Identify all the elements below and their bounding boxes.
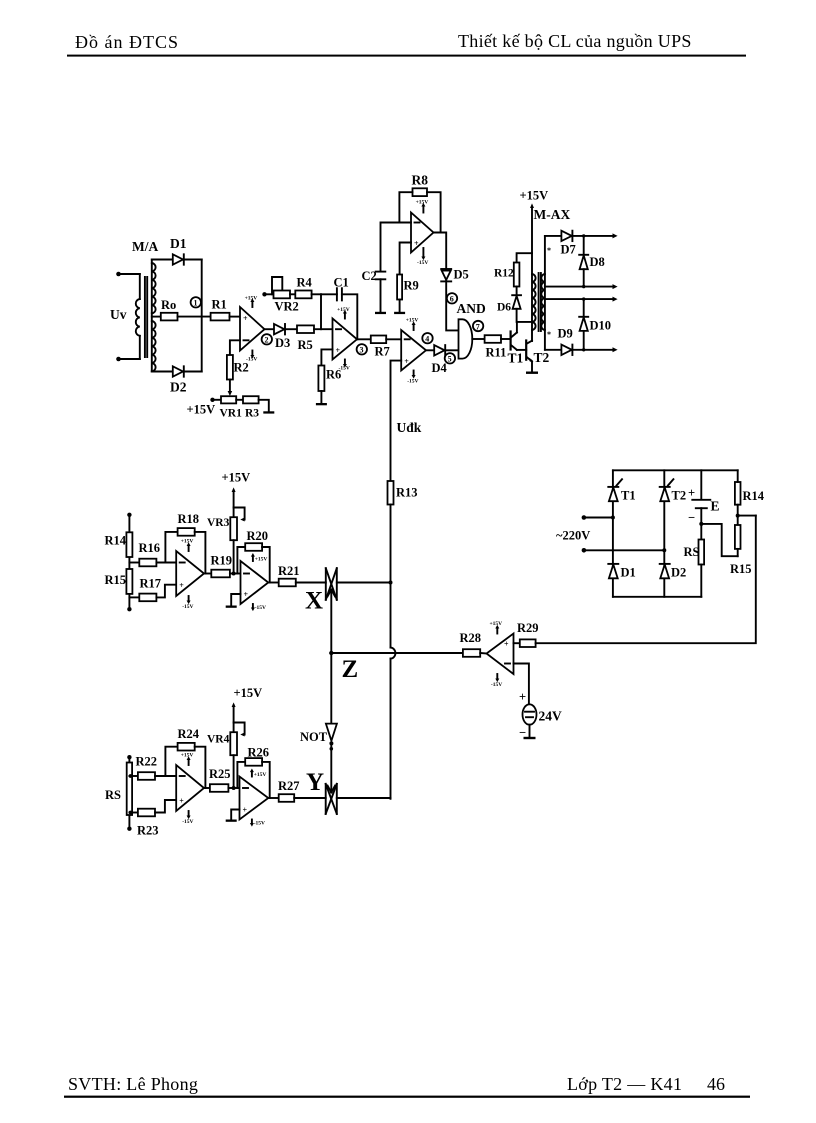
svg-text:NOT: NOT xyxy=(300,730,328,744)
wire feedback right xyxy=(427,192,441,232)
switch Y xyxy=(326,784,337,814)
svg-text:VR3: VR3 xyxy=(207,517,230,529)
svg-text:AND: AND xyxy=(457,301,486,316)
wire gate output 3 xyxy=(545,297,618,302)
resistor R23 xyxy=(138,809,155,817)
svg-text:R11: R11 xyxy=(486,346,507,360)
svg-text:Uv: Uv xyxy=(110,307,127,322)
potentiometer VR3 xyxy=(230,517,237,540)
svg-text:R13: R13 xyxy=(396,486,418,500)
op-amp 2 -supply xyxy=(339,360,350,372)
resistor R16 xyxy=(139,559,156,567)
wire xyxy=(228,787,239,789)
NOT gate xyxy=(326,724,337,746)
op-amp Y2 -supply xyxy=(250,820,265,827)
resistor R14 xyxy=(735,482,741,505)
diode D10 xyxy=(579,297,588,351)
op-amp 3 xyxy=(411,213,434,253)
svg-text:+15V: +15V xyxy=(337,307,350,313)
input terminal top xyxy=(116,272,121,277)
battery 24V xyxy=(523,704,537,724)
wire +15V rail / M-AX primary line xyxy=(530,203,534,341)
diode D2 xyxy=(660,564,670,578)
wire xyxy=(129,596,139,598)
resistor R29 xyxy=(520,639,536,647)
svg-text:T2: T2 xyxy=(534,350,550,365)
wire xyxy=(236,399,243,401)
wire mains 2 xyxy=(584,549,664,551)
node 7 xyxy=(473,321,483,332)
svg-text:R27: R27 xyxy=(278,779,300,793)
wire xyxy=(290,293,295,295)
wire X2 output xyxy=(268,582,278,584)
wire feedback left xyxy=(237,547,245,574)
svg-text:R28: R28 xyxy=(460,631,482,645)
wire inverting input xyxy=(230,340,240,355)
wire X control xyxy=(328,590,336,654)
wire feedback right xyxy=(262,762,270,798)
diode D4 xyxy=(434,345,445,355)
resistor R26 xyxy=(245,758,262,766)
node 2 xyxy=(262,334,272,345)
resistor R7 xyxy=(371,336,386,344)
svg-text:+15V: +15V xyxy=(490,621,503,627)
svg-text:R8: R8 xyxy=(412,173,429,188)
svg-text:+15V: +15V xyxy=(254,772,267,778)
node 4 xyxy=(422,333,432,344)
svg-text:+15V: +15V xyxy=(245,296,258,302)
wire xyxy=(285,328,297,330)
resistor R28 xyxy=(463,649,480,657)
wire Z xyxy=(331,652,463,654)
svg-text:VR4: VR4 xyxy=(207,734,230,746)
wire X1 output xyxy=(204,573,211,575)
svg-text:R6: R6 xyxy=(326,368,341,382)
wire xyxy=(517,253,532,262)
svg-text:T1: T1 xyxy=(621,489,636,503)
svg-text:-15V: -15V xyxy=(255,605,266,611)
wire bridge left leg xyxy=(612,470,614,597)
svg-text:6: 6 xyxy=(450,295,454,304)
op-amp Y1 +supply xyxy=(181,753,194,765)
svg-text:VR1: VR1 xyxy=(220,408,243,420)
op-amp 3 +supply xyxy=(416,200,429,213)
resistor R17 xyxy=(139,594,156,602)
svg-text:Thiết kế bộ CL của nguồn UPS: Thiết kế bộ CL của nguồn UPS xyxy=(458,31,692,51)
wire VR4 to node xyxy=(233,755,235,788)
node 5 xyxy=(445,353,455,364)
svg-text:-15V: -15V xyxy=(254,820,265,826)
ground xyxy=(375,312,386,314)
svg-text:D10: D10 xyxy=(590,319,612,333)
svg-text:Lớp T2 — K41: Lớp T2 — K41 xyxy=(567,1074,682,1094)
node 6 xyxy=(447,293,457,304)
junction Z xyxy=(329,651,333,655)
resistor R27 xyxy=(279,794,295,802)
op-amp Y2 xyxy=(240,777,269,820)
switch X xyxy=(326,568,337,600)
svg-text:+: + xyxy=(414,239,419,248)
wire divider xyxy=(128,515,130,609)
svg-text:C2: C2 xyxy=(362,269,377,283)
svg-text:-15V: -15V xyxy=(491,682,502,688)
resistor R2 xyxy=(227,355,233,380)
ground xyxy=(263,411,274,413)
op-amp X2 xyxy=(241,561,269,604)
svg-text:+15V: +15V xyxy=(187,403,216,417)
svg-text:+: + xyxy=(243,314,248,323)
resistor R18 xyxy=(178,528,195,536)
wire xyxy=(386,338,401,340)
svg-text:+15V: +15V xyxy=(416,200,429,206)
resistor R5 xyxy=(297,325,314,333)
wire xyxy=(501,338,511,340)
resistor R9 xyxy=(397,275,402,300)
svg-text:-15V: -15V xyxy=(182,604,193,610)
X input terminal top xyxy=(127,513,131,517)
wire xyxy=(700,565,702,597)
wire battery top xyxy=(700,470,702,499)
svg-text:D2: D2 xyxy=(170,380,187,395)
svg-text:R17: R17 xyxy=(140,577,162,591)
resistor R24 xyxy=(178,743,195,751)
ground xyxy=(226,820,237,822)
op-amp X1 xyxy=(176,551,204,596)
wire NOT output / Y control xyxy=(328,745,336,792)
svg-text:R7: R7 xyxy=(375,345,390,359)
svg-text:R24: R24 xyxy=(178,727,200,741)
svg-text:R22: R22 xyxy=(136,755,158,769)
op-amp X2 +supply xyxy=(251,553,267,563)
svg-text:+: + xyxy=(504,640,509,649)
svg-text:R23: R23 xyxy=(137,824,159,838)
resistor R3 xyxy=(243,396,259,403)
resistor R6 xyxy=(318,366,324,392)
svg-text:M/A: M/A xyxy=(132,239,158,254)
wire noninverting input xyxy=(400,243,411,275)
wire xyxy=(312,293,321,295)
svg-text:D4: D4 xyxy=(432,361,448,375)
op-amp 4 -supply xyxy=(407,371,418,385)
svg-text:+15V: +15V xyxy=(234,686,263,700)
op-amp 1 xyxy=(240,307,265,351)
svg-text:46: 46 xyxy=(707,1074,725,1094)
wire rectifier bus xyxy=(201,260,203,372)
potentiometer VR2 wiper arm xyxy=(272,277,282,294)
op-amp 3 -supply xyxy=(417,248,428,266)
resistor R15 xyxy=(126,569,132,594)
wire Y1 output xyxy=(204,787,210,789)
svg-text:+15V: +15V xyxy=(222,471,251,485)
wire xyxy=(156,562,176,564)
wire xyxy=(119,358,140,360)
svg-text:R21: R21 xyxy=(278,564,300,578)
wire xyxy=(314,328,333,330)
svg-text:D9: D9 xyxy=(558,327,573,341)
svg-text:+15V: +15V xyxy=(406,318,419,324)
resistor R13 xyxy=(388,481,394,505)
resistor R14 xyxy=(126,532,132,557)
svg-text:R15: R15 xyxy=(105,573,127,587)
ground xyxy=(316,403,327,405)
op-amp 4 xyxy=(401,330,426,371)
svg-text:R15: R15 xyxy=(730,562,752,576)
svg-text:E: E xyxy=(711,499,720,514)
svg-text:X: X xyxy=(305,588,323,615)
wire xyxy=(129,562,139,564)
svg-text:-15V: -15V xyxy=(182,819,193,825)
junction xyxy=(232,572,236,576)
wire xyxy=(230,316,241,318)
op-amp X2 -supply xyxy=(251,604,266,611)
svg-text:*: * xyxy=(547,246,551,255)
svg-text:R18: R18 xyxy=(178,512,200,526)
svg-text:D1: D1 xyxy=(170,236,187,251)
thyristor T2 xyxy=(660,479,674,501)
svg-text:+: + xyxy=(179,797,184,806)
wire tap xyxy=(738,515,756,517)
svg-text:24V: 24V xyxy=(539,709,563,724)
diode D3 xyxy=(274,324,285,334)
ground xyxy=(394,312,405,314)
resistor R12 xyxy=(514,263,520,287)
svg-text:VR2: VR2 xyxy=(275,300,299,314)
svg-text:2: 2 xyxy=(265,336,269,345)
svg-text:+15V: +15V xyxy=(181,539,194,545)
svg-text:D5: D5 xyxy=(454,268,469,282)
wire secondary top xyxy=(152,259,173,261)
junction feedback tap xyxy=(736,514,740,518)
thyristor T1 xyxy=(608,479,622,501)
wire T2 emitter xyxy=(531,362,533,372)
mains terminal 1 xyxy=(582,515,587,520)
wire xyxy=(184,371,202,373)
svg-text:R5: R5 xyxy=(298,338,313,352)
transformer M-AX primary winding xyxy=(532,274,536,330)
wire X switch output xyxy=(337,582,391,584)
wire zigzag to R15 xyxy=(701,524,737,556)
wire xyxy=(320,391,322,403)
svg-text:5: 5 xyxy=(448,355,452,364)
resistor R4 xyxy=(295,291,311,299)
diode D1 xyxy=(608,564,618,578)
wire xyxy=(178,316,211,318)
potentiometer VR3 wiper arm xyxy=(234,508,245,522)
svg-text:+: + xyxy=(179,581,184,590)
resistor R11 xyxy=(485,335,501,343)
wire xyxy=(229,380,231,392)
shunt RS xyxy=(127,763,132,816)
wire xyxy=(294,797,326,799)
wire xyxy=(321,293,337,295)
diode D7 xyxy=(561,231,572,241)
wire op4 output xyxy=(426,349,434,351)
transformer M/A primary winding xyxy=(136,274,140,359)
wire xyxy=(155,800,176,813)
op-amp 5 xyxy=(487,634,514,675)
svg-text:R25: R25 xyxy=(209,767,231,781)
svg-text:+15V: +15V xyxy=(520,189,549,203)
mains terminal 2 xyxy=(582,548,587,553)
wire op3 output xyxy=(434,233,447,271)
svg-text:D7: D7 xyxy=(561,243,576,257)
wire main bus lower xyxy=(390,659,392,799)
svg-text:R3: R3 xyxy=(245,408,259,420)
svg-text:~220V: ~220V xyxy=(556,529,590,543)
wire bridge mid leg xyxy=(663,470,665,597)
wire xyxy=(737,505,739,525)
diode D9 xyxy=(561,345,572,355)
potentiometer VR4 xyxy=(230,732,237,755)
header rule xyxy=(67,55,746,57)
wire secondary bottom xyxy=(152,371,173,373)
resistor R8 xyxy=(413,188,428,196)
wire VR3 to node xyxy=(233,540,235,573)
resistor R1 xyxy=(211,313,230,321)
wire xyxy=(380,279,382,312)
wire xyxy=(446,281,458,331)
diode D5 xyxy=(441,269,451,281)
wire hop over Z xyxy=(391,648,396,659)
wire + input xyxy=(514,642,520,644)
svg-text:Y: Y xyxy=(306,769,324,796)
wire main bus upper xyxy=(390,505,392,648)
wiper arrow onto VR1 xyxy=(228,391,233,396)
wire gate output 2 xyxy=(545,284,618,289)
ground xyxy=(226,606,237,608)
svg-text:D6: D6 xyxy=(497,302,511,314)
svg-text:Ro: Ro xyxy=(161,298,176,312)
node 3 xyxy=(357,344,367,355)
svg-text:-15V: -15V xyxy=(407,379,418,385)
wire xyxy=(230,573,241,575)
potentiometer VR1 xyxy=(221,396,236,403)
svg-text:+15V: +15V xyxy=(255,557,268,563)
terminal dot VR2 xyxy=(262,292,266,296)
op-amp 4 +supply xyxy=(406,318,419,330)
svg-text:R16: R16 xyxy=(139,541,161,555)
wire X2 + input to ground xyxy=(231,594,240,606)
svg-text:RS: RS xyxy=(105,788,121,802)
wire feedback from bridge xyxy=(536,516,756,644)
svg-text:R2: R2 xyxy=(234,361,249,375)
svg-text:-15V: -15V xyxy=(417,260,428,266)
resistor R21 xyxy=(279,579,296,587)
wire T1 collector xyxy=(516,322,518,333)
wire feedback right xyxy=(262,547,270,583)
svg-text:+15V: +15V xyxy=(181,753,194,759)
svg-text:R14: R14 xyxy=(105,534,127,548)
op-amp 5 +supply xyxy=(490,621,503,633)
wire mains 1 xyxy=(584,517,613,519)
AND gate xyxy=(459,319,473,358)
resistor R19 xyxy=(211,570,230,578)
svg-text:+: + xyxy=(519,690,526,704)
svg-text:+: + xyxy=(244,590,249,599)
transformer M-AX core xyxy=(539,273,541,331)
svg-text:R29: R29 xyxy=(517,621,539,635)
wire feedback left xyxy=(165,747,177,776)
wire feedback right xyxy=(195,747,206,788)
wire xyxy=(128,757,130,829)
potentiometer VR4 wiper arm xyxy=(234,723,245,737)
wire T1 emitter to T2 base xyxy=(517,349,526,351)
junction xyxy=(611,516,615,520)
wire xyxy=(265,293,274,295)
diode D8 xyxy=(579,234,588,288)
wire junction vertical xyxy=(320,294,322,329)
wire Z to NOT xyxy=(330,653,332,724)
diode D6 xyxy=(512,295,521,309)
diode D1 xyxy=(173,254,184,264)
wire xyxy=(516,287,518,296)
ground xyxy=(524,737,536,739)
junction xyxy=(699,522,703,526)
wire xyxy=(259,400,269,412)
wire bridge bottom xyxy=(613,596,701,598)
wire feedback right xyxy=(195,532,206,574)
Y input terminal top xyxy=(127,755,131,759)
transformer M-AX secondary winding xyxy=(541,236,545,350)
junction xyxy=(232,786,236,790)
wire feedback left xyxy=(399,192,412,222)
junction xyxy=(129,811,133,815)
input terminal bottom xyxy=(116,357,121,362)
svg-text:D8: D8 xyxy=(590,255,605,269)
transistor T2 xyxy=(526,341,532,362)
wire xyxy=(529,725,531,737)
terminal dot VR1 xyxy=(210,398,214,402)
potentiometer VR2 xyxy=(274,291,291,299)
svg-text:T1: T1 xyxy=(508,351,524,366)
wire +15V to VR3 xyxy=(232,487,236,517)
capacitor C1 xyxy=(337,288,342,300)
op-amp 2 xyxy=(333,319,358,360)
svg-text:R4: R4 xyxy=(297,276,313,290)
wire bridge top xyxy=(613,469,738,471)
wire AND output xyxy=(472,338,484,340)
wire xyxy=(129,812,138,814)
node 1 xyxy=(191,297,201,308)
wire xyxy=(296,582,326,584)
svg-text:+: + xyxy=(243,806,248,815)
wire gate output 1 xyxy=(572,233,617,238)
wire xyxy=(155,775,176,777)
op-amp X1 -supply xyxy=(182,596,193,610)
svg-text:D3: D3 xyxy=(275,336,290,350)
wire feedback left xyxy=(165,532,177,563)
svg-text:D2: D2 xyxy=(671,566,686,580)
wire xyxy=(184,259,202,261)
capacitor C2 xyxy=(376,272,386,280)
wire +15V to VR4 xyxy=(232,702,236,732)
wire xyxy=(737,549,739,556)
wire xyxy=(700,508,702,539)
svg-text:Uđk: Uđk xyxy=(397,420,422,435)
junction X output xyxy=(389,581,393,585)
wire xyxy=(213,399,222,401)
resistor R15 xyxy=(735,525,741,549)
op-amp 1 -supply xyxy=(246,351,257,363)
wire xyxy=(399,300,401,312)
svg-text:1: 1 xyxy=(194,299,198,308)
op-amp Y1 xyxy=(176,765,204,811)
transformer M/A core xyxy=(145,277,147,357)
ground xyxy=(526,372,538,374)
svg-text:SVTH: Lê Phong: SVTH: Lê Phong xyxy=(68,1074,198,1094)
wire - input xyxy=(514,664,529,705)
wire secondary bottom lead xyxy=(545,349,561,351)
